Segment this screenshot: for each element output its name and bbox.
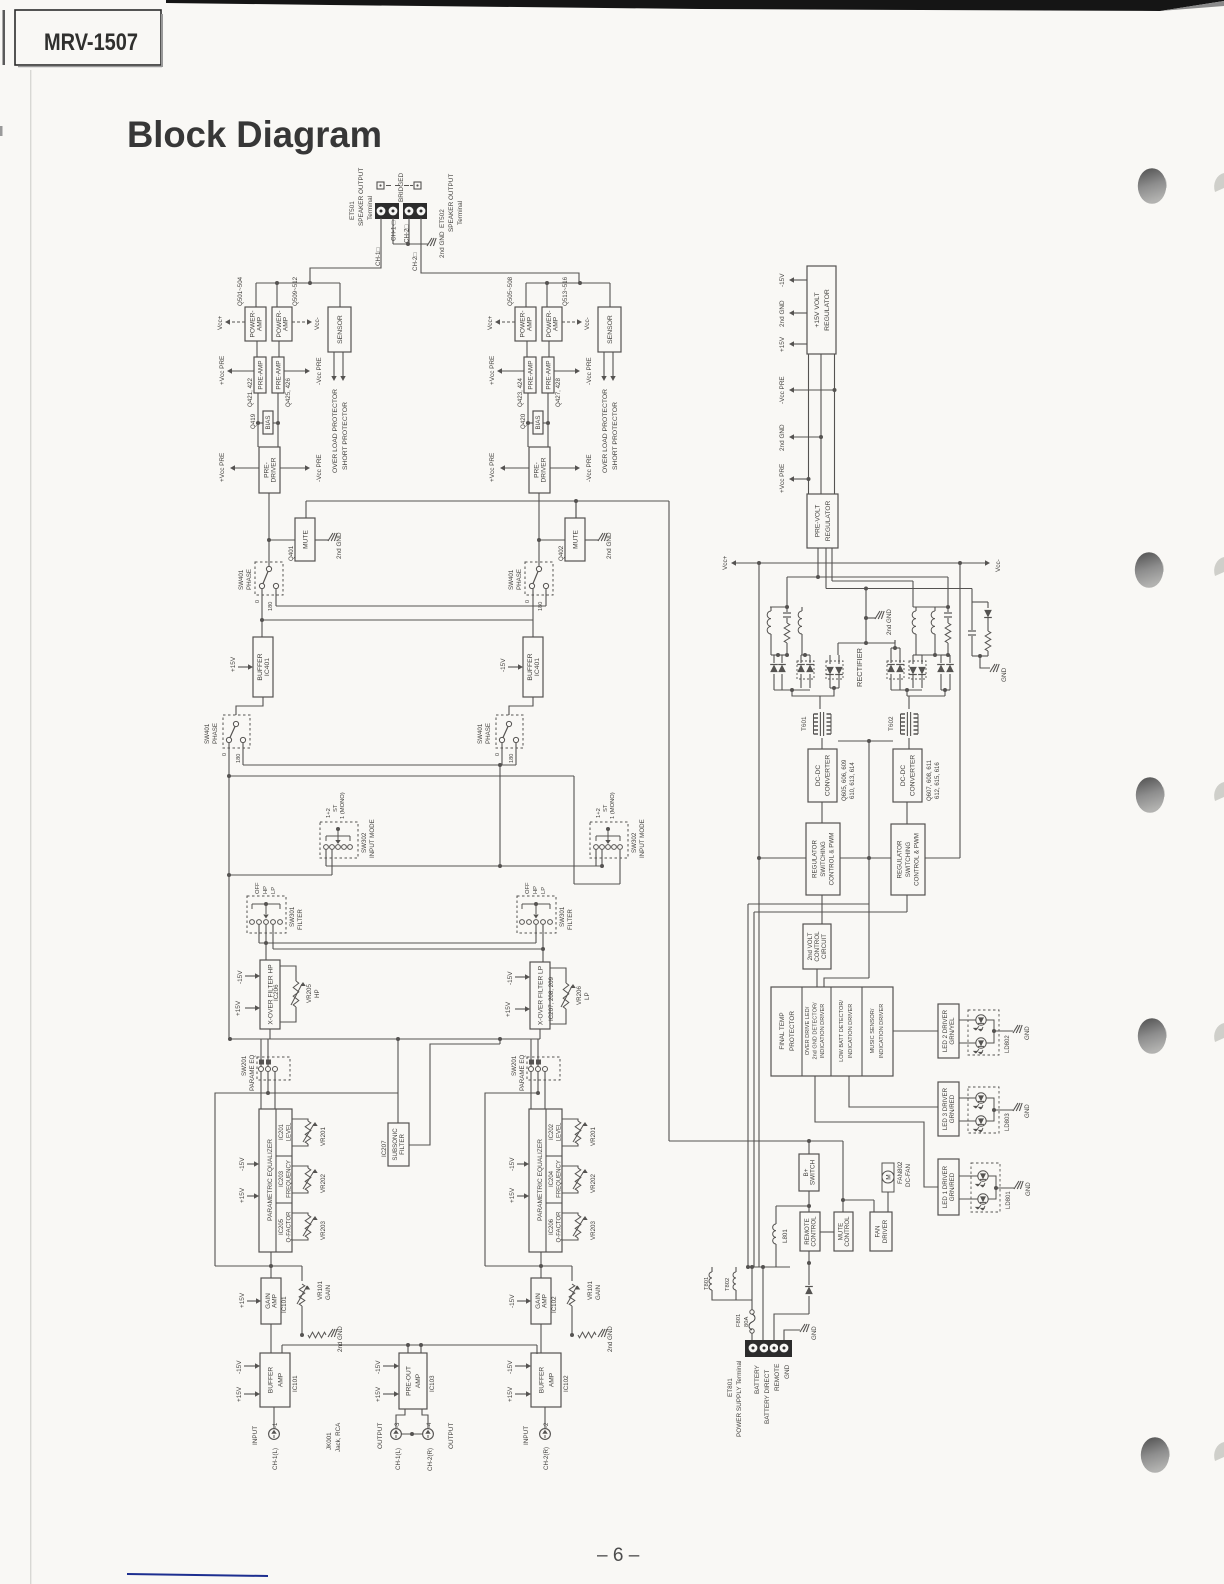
svg-text:Q513~516: Q513~516	[562, 276, 569, 306]
led LD802	[968, 1010, 999, 1055]
wire CH-1(+) from terminal	[392, 218, 394, 244]
svg-text:OVER DRIVE LED/: OVER DRIVE LED/	[805, 1006, 811, 1055]
svg-text:Vcc-: Vcc-	[584, 317, 591, 330]
svg-text:Terminal: Terminal	[457, 201, 464, 225]
transformer T602	[901, 713, 906, 715]
eq bypass to subsonic node	[268, 1092, 398, 1094]
svg-text:1+2: 1+2	[326, 808, 332, 818]
svg-text:-15V: -15V	[507, 971, 514, 985]
rectifier feed line B	[826, 588, 972, 590]
phase switch SW401 upper	[525, 562, 553, 595]
svg-text:LEVEL: LEVEL	[287, 1122, 293, 1141]
rectifier group bottom bus	[771, 654, 787, 656]
fuse F801 80A	[751, 1267, 753, 1310]
pot VR203	[292, 1213, 308, 1215]
L801 coil feed	[776, 1205, 809, 1207]
svg-text:CH-2(R): CH-2(R)	[543, 1447, 550, 1470]
power amp Q505~508	[515, 307, 536, 341]
svg-text:CH-2□: CH-2□	[412, 253, 419, 271]
gain amp to buffer wire	[540, 1324, 542, 1353]
svg-text:CONTROL & PWM: CONTROL & PWM	[914, 833, 921, 886]
led LD803	[968, 1087, 999, 1133]
svg-text:SHORT PROTECTOR: SHORT PROTECTOR	[612, 402, 619, 470]
pre-out amp IC103	[399, 1353, 427, 1409]
svg-text:FILTER: FILTER	[297, 909, 304, 930]
svg-text:GND: GND	[1024, 1026, 1031, 1040]
svg-text:GND: GND	[811, 1326, 818, 1340]
svg-text:GND: GND	[784, 1364, 791, 1379]
svg-text:+Vcc PRE: +Vcc PRE	[219, 356, 226, 385]
svg-text:0: 0	[525, 600, 531, 603]
svg-text:REGULATOR: REGULATOR	[825, 501, 832, 542]
svg-text:LED 1 DRIVER: LED 1 DRIVER	[942, 1165, 949, 1208]
svg-text:BATTERY: BATTERY	[754, 1364, 761, 1394]
pot VR202	[562, 1166, 578, 1168]
svg-text:Q-FACTOR: Q-FACTOR	[287, 1211, 293, 1243]
+15V output arrow	[793, 343, 807, 345]
svg-text:Q-FACTOR: Q-FACTOR	[557, 1211, 563, 1243]
svg-text:CONTROL: CONTROL	[844, 1216, 851, 1247]
pot VR205 HP	[280, 966, 296, 981]
svg-text:SW401: SW401	[238, 569, 245, 590]
svg-text:INDICATION DRIVER: INDICATION DRIVER	[879, 1004, 885, 1059]
coil L801	[773, 1224, 776, 1244]
wire buffer CH-2 to lower phase switch	[509, 697, 533, 715]
terminal block ET502	[403, 203, 427, 219]
-Vcc PRE arrow predriver	[550, 467, 576, 469]
svg-text:CH-2(R): CH-2(R)	[427, 1448, 434, 1471]
rectifier right output bus	[891, 689, 922, 691]
sensor	[598, 307, 621, 352]
svg-text:2nd GND: 2nd GND	[606, 532, 613, 559]
input mode switch SW302	[590, 822, 628, 858]
svg-text:BIAS: BIAS	[535, 415, 542, 429]
node 2nd GND speaker return	[393, 243, 428, 245]
svg-text:FILTER: FILTER	[567, 909, 574, 930]
music sensor to led2 wire	[893, 1030, 938, 1032]
svg-text:SW401: SW401	[477, 723, 484, 744]
led 1 driver	[938, 1159, 959, 1215]
ground led3	[1013, 1103, 1018, 1111]
svg-text:AMP: AMP	[526, 316, 533, 331]
transformer T601	[814, 713, 819, 715]
punch hole 5	[1167, 1447, 1169, 1457]
svg-text:GRN/YEL: GRN/YEL	[949, 1017, 956, 1045]
svg-text:SPEAKER OUTPUT: SPEAKER OUTPUT	[358, 168, 365, 226]
+15V volt regulator	[807, 266, 836, 354]
svg-text:PRE-: PRE-	[263, 462, 270, 478]
-Vcc PRE tap	[833, 388, 837, 392]
gain amp IC101	[261, 1278, 281, 1324]
svg-text:INPUT: INPUT	[252, 1426, 259, 1445]
buffer amp IC101	[260, 1353, 290, 1407]
svg-text:JK001: JK001	[326, 1432, 333, 1450]
svg-text:FREQUENCY: FREQUENCY	[287, 1160, 293, 1198]
x-over filter HP IC206	[260, 960, 280, 1029]
svg-text:GAIN: GAIN	[595, 1285, 602, 1300]
pot VR201	[562, 1119, 578, 1121]
svg-text:IC204: IC204	[549, 1170, 555, 1187]
-Vcc PRE arrow	[554, 370, 576, 372]
fan driver box	[870, 1212, 892, 1251]
svg-text:AMP: AMP	[548, 1372, 555, 1387]
+Vcc PRE tap	[807, 477, 811, 481]
wire filter to xover CH-1	[265, 943, 267, 960]
svg-text:SHORT PROTECTOR: SHORT PROTECTOR	[342, 402, 349, 470]
svg-text:SWITCH: SWITCH	[810, 1160, 817, 1186]
remote control box	[800, 1212, 820, 1251]
rectifier diode pair dashed 2	[826, 661, 843, 679]
svg-text:CONTROL & PWM: CONTROL & PWM	[829, 833, 836, 886]
wire pre driver to phase switch	[268, 493, 270, 566]
remote-mute link	[820, 1231, 834, 1233]
wires pre amps to bias node	[527, 393, 529, 447]
svg-text:2nd GND: 2nd GND	[607, 1326, 614, 1352]
protector block	[771, 987, 893, 1076]
svg-text:AMP: AMP	[283, 316, 290, 331]
gain amp IC102	[531, 1278, 551, 1324]
regulator control rail wires	[759, 857, 806, 859]
svg-text:1 (MONO): 1 (MONO)	[340, 792, 346, 819]
+Vcc PRE arrow	[501, 370, 524, 372]
svg-text:FILTER: FILTER	[399, 1134, 406, 1155]
power amp Q501~504	[245, 307, 266, 341]
svg-text:INPUT MODE: INPUT MODE	[639, 819, 646, 858]
led 2 driver	[938, 1004, 959, 1058]
svg-text:IC201: IC201	[279, 1123, 285, 1140]
eq bypass loop	[215, 1093, 268, 1266]
svg-text:-Vcc PRE: -Vcc PRE	[586, 357, 593, 385]
wire to mute	[539, 539, 565, 541]
low batt to led3 wire	[849, 1076, 938, 1107]
svg-text:VR201: VR201	[590, 1127, 597, 1146]
svg-text:Jack, RCA: Jack, RCA	[335, 1422, 342, 1452]
svg-text:0: 0	[255, 600, 261, 603]
svg-text:T602: T602	[888, 716, 895, 731]
input select bus b	[229, 874, 332, 876]
rectifier snubber cap	[785, 605, 789, 609]
svg-text:CH-1(L): CH-1(L)	[395, 1448, 402, 1470]
mute control box	[834, 1212, 853, 1251]
svg-text:-2: -2	[544, 1422, 550, 1428]
wire to buffer CH-1	[261, 620, 263, 637]
svg-text:PHASE: PHASE	[485, 723, 492, 744]
svg-text:GAIN: GAIN	[325, 1285, 332, 1300]
x-over filter LP IC207 208 209	[530, 962, 550, 1029]
pre driver	[259, 447, 280, 493]
svg-text:POWER-: POWER-	[249, 310, 256, 337]
wire to mute	[269, 539, 295, 541]
svg-text:PROTECTOR: PROTECTOR	[789, 1011, 796, 1051]
svg-text:+Vcc PRE: +Vcc PRE	[489, 356, 496, 385]
svg-text:SENSOR: SENSOR	[337, 315, 344, 344]
phase 180 bus lower	[242, 743, 244, 765]
sensor outputs to protectors	[333, 352, 335, 377]
svg-text:CH-2□: CH-2□	[404, 225, 411, 243]
svg-text:LP: LP	[271, 887, 277, 894]
sw201 output wires	[530, 1072, 532, 1110]
eq bypass loop	[485, 1093, 538, 1266]
svg-text:1 (MONO): 1 (MONO)	[610, 792, 616, 819]
svg-text:Q423, 424: Q423, 424	[517, 378, 524, 407]
svg-text:CH-1□: CH-1□	[375, 248, 382, 266]
regulator switching control and pwm 1	[806, 823, 840, 895]
bottom blue rule	[127, 1574, 268, 1576]
svg-text:IC206: IC206	[273, 984, 280, 1001]
svg-text:Block Diagram: Block Diagram	[127, 114, 382, 155]
svg-text:-15V: -15V	[509, 1294, 516, 1308]
svg-text:SWITCHING: SWITCHING	[820, 841, 827, 877]
svg-text:AMP: AMP	[553, 316, 560, 331]
svg-text:LED 2 DRIVER: LED 2 DRIVER	[942, 1009, 949, 1052]
pot VR202	[292, 1166, 308, 1168]
svg-text:CONTROL: CONTROL	[811, 1216, 818, 1247]
2nd GND output arrow	[793, 312, 807, 314]
svg-text:VR202: VR202	[320, 1174, 327, 1193]
svg-text:M: M	[886, 1174, 893, 1179]
SW302 wires CH-1	[325, 849, 327, 866]
buffer amp IC102	[531, 1353, 561, 1407]
svg-text:0: 0	[222, 753, 228, 756]
svg-text:LD803: LD803	[1005, 1113, 1011, 1131]
svg-text:MUSIC SENSOR/: MUSIC SENSOR/	[870, 1008, 876, 1053]
power terminal ET801	[745, 1340, 792, 1357]
svg-text:CH-1(L): CH-1(L)	[272, 1448, 279, 1470]
svg-text:POWER-: POWER-	[519, 310, 526, 337]
svg-text:VR201: VR201	[320, 1127, 327, 1146]
svg-text:180: 180	[509, 754, 515, 763]
svg-text:SW201: SW201	[511, 1055, 518, 1076]
svg-text:-Vcc PRE: -Vcc PRE	[316, 357, 323, 385]
wire buffer CH-1 to lower phase switch	[236, 697, 263, 715]
sw201 output wires	[260, 1072, 262, 1110]
phase line 0 left-right	[261, 589, 263, 620]
svg-text:OVER LOAD PROTECTOR: OVER LOAD PROTECTOR	[332, 389, 339, 473]
svg-text:AMP: AMP	[277, 1372, 284, 1387]
rectifier output bus	[774, 689, 810, 691]
svg-text:Q501~504: Q501~504	[237, 276, 244, 306]
mute Q402	[565, 518, 585, 561]
svg-text:IC101: IC101	[281, 1296, 288, 1313]
filter switch SW301	[517, 896, 556, 933]
input mode switch SW302	[320, 822, 358, 858]
parametric equalizer	[529, 1109, 562, 1252]
mute bus wire to power supply control	[306, 500, 669, 502]
vr101 ground leg	[571, 1306, 573, 1335]
power amp Q509~512	[272, 307, 292, 341]
+Vcc PRE arrow	[231, 370, 254, 372]
wires pre amps to bias node	[257, 393, 259, 447]
mute/fan feed wires	[841, 1198, 845, 1202]
wire mute to mute-bus	[575, 501, 577, 518]
svg-text:CONTROL: CONTROL	[814, 931, 821, 962]
svg-text:+15V: +15V	[239, 1187, 246, 1203]
svg-text:CONVERTER: CONVERTER	[910, 755, 917, 797]
2nd GND tap	[819, 435, 823, 439]
2nd volt control circuit	[821, 895, 823, 924]
xover output bus	[229, 1038, 540, 1040]
svg-text:DRIVER: DRIVER	[540, 457, 547, 482]
ground GND far right	[990, 664, 995, 672]
rectifier feed line A	[787, 576, 948, 578]
svg-text:PHASE: PHASE	[246, 569, 253, 590]
svg-text:– 6 –: – 6 –	[597, 1545, 640, 1566]
svg-text:IC207: IC207	[381, 1140, 388, 1157]
svg-text:-Vcc PRE: -Vcc PRE	[316, 454, 323, 482]
svg-text:DRIVER: DRIVER	[270, 457, 277, 482]
svg-text:-Vcc PRE: -Vcc PRE	[586, 454, 593, 482]
svg-text:Terminal: Terminal	[367, 196, 374, 220]
svg-text:Q605, 606, 609: Q605, 606, 609	[842, 759, 848, 801]
punch hole 4	[1164, 1028, 1166, 1038]
svg-text:SW301: SW301	[289, 906, 296, 927]
svg-text:-1: -1	[273, 1422, 279, 1428]
svg-text:HP: HP	[314, 989, 321, 998]
pre-out jacks	[396, 1409, 405, 1429]
svg-text:BUFFER: BUFFER	[538, 1367, 545, 1394]
svg-text:Vcc+: Vcc+	[217, 315, 224, 330]
center control wire	[868, 741, 870, 858]
svg-text:LOW BATT DETECTOR/: LOW BATT DETECTOR/	[839, 1000, 845, 1062]
rectifier right diode pair plain	[940, 655, 942, 663]
transformer T802	[735, 1267, 737, 1272]
rectifier group right snubber	[946, 605, 950, 609]
svg-text:PRE-: PRE-	[533, 462, 540, 478]
page edge hole fragments right	[1214, 173, 1224, 192]
phase switch SW401 lower	[496, 715, 523, 748]
long vertical input bus CH-1	[228, 776, 230, 1039]
svg-text:-4: -4	[427, 1422, 433, 1428]
svg-text:SPEAKER OUTPUT: SPEAKER OUTPUT	[448, 174, 455, 232]
svg-text:-15V: -15V	[507, 1360, 514, 1374]
svg-text:LED 3 DRIVER: LED 3 DRIVER	[942, 1087, 949, 1130]
led LD801	[971, 1163, 1000, 1212]
parametric equalizer	[259, 1109, 292, 1252]
svg-text:VR203: VR203	[320, 1221, 327, 1240]
svg-text:PARAMETRIC EQUALIZER: PARAMETRIC EQUALIZER	[537, 1139, 544, 1221]
pot VR101 GAIN	[299, 1284, 305, 1306]
svg-text:Q425, 426: Q425, 426	[285, 378, 292, 407]
svg-text:INDICATION DRIVER: INDICATION DRIVER	[820, 1004, 826, 1059]
svg-text:+Vcc PRE: +Vcc PRE	[779, 464, 786, 493]
svg-text:VR101: VR101	[317, 1281, 324, 1300]
svg-text:IC401: IC401	[264, 658, 271, 676]
subsonic return wire	[409, 1044, 500, 1145]
svg-text:LP: LP	[541, 887, 547, 894]
svg-text:POWER SUPPLY Terminal: POWER SUPPLY Terminal	[736, 1361, 743, 1437]
punch hole 1	[1164, 178, 1166, 188]
Vcc top rail	[759, 562, 986, 564]
svg-text:-15V: -15V	[236, 1360, 243, 1374]
svg-text:Vcc-: Vcc-	[995, 559, 1002, 572]
bias Q420	[528, 422, 533, 424]
svg-text:OUTPUT: OUTPUT	[448, 1423, 455, 1449]
-Vcc PRE arrow	[284, 370, 306, 372]
svg-text:IC203: IC203	[279, 1170, 285, 1187]
svg-text:DRIVER: DRIVER	[882, 1219, 889, 1243]
punch hole 3	[1162, 787, 1164, 797]
svg-text:T802: T802	[725, 1278, 731, 1291]
svg-text:AMP: AMP	[256, 316, 263, 331]
svg-text:2nd VOLT: 2nd VOLT	[807, 932, 814, 960]
svg-text:L801: L801	[782, 1229, 789, 1243]
svg-text:IC103: IC103	[429, 1375, 436, 1392]
phase line 180 left-right	[275, 589, 277, 606]
wire to buffer CH-2	[532, 620, 534, 637]
svg-text:INDICATION DRIVER: INDICATION DRIVER	[848, 1004, 854, 1059]
pre-volt regulator	[807, 494, 838, 548]
rectifier right diode pair dashed 2	[909, 661, 926, 679]
svg-text:Q607, 608, 611: Q607, 608, 611	[927, 759, 933, 801]
svg-text:-15V: -15V	[779, 273, 786, 287]
svg-text:DC-FAN: DC-FAN	[905, 1164, 912, 1187]
svg-text:+15V: +15V	[509, 1187, 516, 1203]
svg-text:VR203: VR203	[590, 1221, 597, 1240]
sensor	[328, 307, 351, 352]
svg-text:610, 613, 614: 610, 613, 614	[850, 762, 856, 799]
svg-text:GND: GND	[1025, 1182, 1032, 1196]
svg-text:FAN802: FAN802	[897, 1161, 904, 1184]
svg-text:PHASE: PHASE	[516, 569, 523, 590]
svg-text:REGULATOR: REGULATOR	[897, 840, 904, 878]
svg-text:2nd GND: 2nd GND	[336, 532, 343, 559]
svg-text:2nd GND: 2nd GND	[779, 300, 786, 327]
svg-text:ET502: ET502	[439, 209, 446, 228]
svg-text:612, 615, 616: 612, 615, 616	[935, 762, 941, 799]
Vcc+ rail arrow	[735, 562, 759, 564]
left paper edge	[3, 10, 6, 65]
filter bus wires	[258, 924, 260, 943]
mono loop wire right	[573, 776, 575, 884]
svg-text:IC102: IC102	[563, 1375, 570, 1392]
svg-text:-15V: -15V	[375, 1360, 382, 1374]
svg-text:Q421, 422: Q421, 422	[247, 378, 254, 407]
svg-text:Q419: Q419	[250, 413, 257, 429]
ground 2nd GND speaker	[427, 238, 432, 246]
svg-text:OFF: OFF	[525, 882, 531, 894]
svg-text:IC101: IC101	[292, 1375, 299, 1392]
rectifier right diode pair dashed 1	[887, 661, 904, 679]
eq output node	[540, 1252, 542, 1278]
svg-text:CONVERTER: CONVERTER	[825, 755, 832, 797]
punch hole 2	[1161, 562, 1163, 572]
distribution wire	[256, 282, 340, 284]
Vcc- rail vertical	[959, 563, 961, 858]
pre-volt outputs to rectifier	[817, 548, 819, 577]
pot VR101 GAIN	[569, 1284, 575, 1306]
sw201 feed stubs	[260, 1039, 262, 1066]
wire CH-2(+) from terminal	[408, 218, 410, 244]
svg-text:-Vcc PRE: -Vcc PRE	[779, 376, 786, 404]
svg-text:80A: 80A	[744, 1317, 750, 1327]
power amp Q513~516	[542, 307, 562, 341]
svg-text:GRN/RED: GRN/RED	[949, 1094, 956, 1123]
svg-text:SW401: SW401	[508, 569, 515, 590]
svg-text:SWITCHING: SWITCHING	[905, 842, 912, 878]
svg-text:PRE-VOLT: PRE-VOLT	[815, 505, 822, 538]
model number box MRV-1507	[15, 10, 161, 65]
-Vcc PRE arrow predriver	[280, 467, 306, 469]
rectifier coil 1	[770, 606, 789, 608]
svg-text:+15V: +15V	[375, 1386, 382, 1402]
remote control diode leg	[808, 1251, 810, 1285]
wire pre driver to phase switch	[538, 493, 540, 566]
svg-text:Q505~508: Q505~508	[507, 276, 514, 306]
svg-text:IC206: IC206	[549, 1218, 555, 1235]
svg-text:2nd GND: 2nd GND	[886, 609, 893, 635]
svg-text:IC202: IC202	[549, 1123, 555, 1140]
svg-text:CIRCUIT: CIRCUIT	[821, 934, 828, 959]
